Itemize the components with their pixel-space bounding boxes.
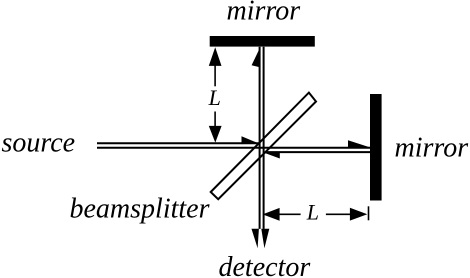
half-arrowhead up at top mirror <box>252 47 261 68</box>
half-arrowhead left below beamsplitter (return beam) <box>262 152 279 159</box>
svg-text:mirror: mirror <box>227 0 301 27</box>
svg-text:source: source <box>2 127 76 158</box>
svg-text:detector: detector <box>219 252 311 278</box>
dimension arrowhead down (to beam) <box>209 126 222 143</box>
wire: common beam middle line H2 <box>97 147 370 149</box>
wire: source beam upper line H1 <box>97 142 261 144</box>
half-arrowhead right at beamsplitter (incoming beam) <box>242 136 259 144</box>
svg-text:L: L <box>208 85 221 110</box>
dimension line L (bottom, horizontal) left segment <box>279 213 301 215</box>
svg-text:L: L <box>306 200 319 225</box>
svg-text:beamsplitter: beamsplitter <box>70 194 210 225</box>
detector arrowhead right triangle <box>261 229 269 249</box>
dimension arrowhead left (to vertical beam) <box>263 208 280 221</box>
detector arrowhead left triangle <box>252 229 259 249</box>
dimension line L (left, vertical) lower segment <box>214 112 216 132</box>
beamsplitter plate (45-degree rectangle outline) <box>211 93 316 200</box>
wire: transmitted beam lower line H3 <box>265 151 370 153</box>
wire: vertical beam left line V1 <box>259 47 261 229</box>
mirror M2 (right mirror bar) <box>370 94 382 201</box>
mirror M1 (top mirror bar) <box>210 36 315 47</box>
dimension tick mark <box>368 206 370 220</box>
wire: vertical beam right line V2 <box>263 47 265 229</box>
dimension line L (left, vertical) upper segment <box>214 58 216 86</box>
dimension line L (bottom, horizontal) right segment <box>326 213 351 215</box>
dimension arrowhead up (to top mirror) <box>209 47 222 66</box>
half-arrowhead right at right mirror <box>348 140 370 148</box>
svg-text:mirror: mirror <box>395 133 469 164</box>
dimension arrowhead right (to tick) <box>350 208 367 221</box>
